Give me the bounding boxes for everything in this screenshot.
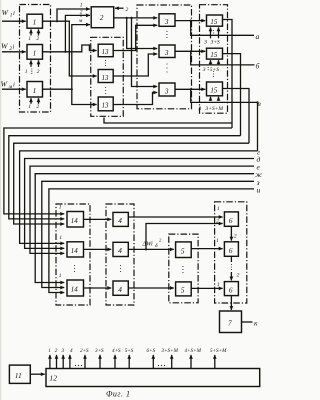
svg-text:и: и — [257, 185, 261, 194]
wire block1 row3 out to block2 pin м and to 13 row3 — [43, 88, 72, 90]
svg-text:i: i — [13, 10, 15, 17]
block 13 row1 — [98, 44, 113, 57]
bus line 3 — [14, 143, 249, 224]
svg-text:а: а — [256, 32, 260, 41]
block 14 row3 — [67, 280, 84, 296]
svg-text:12: 12 — [49, 373, 57, 382]
wire 6 row1 to 6 row2, pin 2 — [230, 226, 232, 240]
svg-text:1: 1 — [28, 36, 31, 42]
block 3 row1 — [159, 14, 175, 26]
node б line — [191, 51, 255, 65]
svg-text:1: 1 — [59, 205, 62, 211]
svg-text:5: 5 — [181, 286, 185, 295]
svg-text:1: 1 — [33, 48, 37, 57]
block 15 row1 — [207, 15, 223, 26]
svg-text:3: 3 — [164, 86, 169, 95]
svg-text:6: 6 — [229, 216, 233, 225]
svg-text:1: 1 — [217, 206, 220, 212]
svg-text:11: 11 — [15, 371, 22, 380]
svg-text:5+S: 5+S — [125, 348, 134, 354]
ellipsis between 13 rows — [105, 60, 106, 66]
block 7 — [220, 311, 242, 333]
wire 13 row3 out to 3 row3 input2 — [113, 93, 157, 105]
wire node в wrap-around — [257, 102, 259, 150]
svg-text:15: 15 — [210, 52, 217, 59]
svg-text:6+S: 6+S — [147, 348, 156, 354]
block 5 row3 — [176, 282, 192, 296]
wire 13 row2 out to 3 row2 input2 — [113, 54, 157, 76]
wire branch to 3 row2 input1 — [127, 18, 158, 49]
group frame G5 — [169, 234, 198, 303]
wire 14 row3 to 4 row3 — [84, 287, 112, 289]
svg-text:δ: δ — [155, 243, 158, 249]
wire 14 row1 to 4 row1 — [84, 218, 112, 220]
wire feedback line y123 — [104, 118, 232, 124]
pins 3, 3+S below 15 row1 — [210, 27, 212, 38]
node а line — [191, 21, 254, 36]
svg-text:2: 2 — [100, 13, 104, 22]
svg-text:6: 6 — [229, 285, 233, 294]
wire 3 row3 out to 15 row3, node в branch — [175, 88, 205, 90]
block 4 row3 — [113, 281, 128, 295]
svg-text:13: 13 — [102, 103, 109, 110]
wire block2 out to block 3 row1 — [114, 17, 158, 19]
svg-text:6: 6 — [229, 246, 233, 255]
svg-text:к: к — [254, 319, 258, 328]
group frame G6 — [215, 202, 247, 303]
svg-text:14: 14 — [71, 218, 78, 225]
svg-text:4: 4 — [118, 285, 122, 294]
svg-text:5: 5 — [181, 247, 185, 256]
group frame G14 — [56, 204, 90, 305]
wire 4 row2 out to 5 row2, branch ΔWiδ2 up to 6 row1 pin2 — [128, 248, 174, 250]
wire 4 row1 out to 6 row1 pin1 — [128, 216, 222, 218]
svg-text:4+S+M: 4+S+M — [185, 347, 202, 354]
pins 1,2 below block 1 row1 — [30, 29, 32, 35]
svg-text:3: 3 — [202, 67, 206, 73]
block 13 row3 — [98, 97, 113, 111]
wire 11 to 12 — [30, 373, 44, 375]
block 12 — [46, 369, 260, 387]
wire 6 row2 to 6 row3 dotted continuation, pin 2 — [230, 256, 232, 262]
block 6 row1 — [224, 212, 238, 226]
block 15 row2 — [207, 48, 223, 59]
svg-text:2: 2 — [234, 233, 237, 239]
svg-text:4: 4 — [70, 347, 73, 354]
ellipsis between 15 rows — [213, 30, 214, 36]
wire Wмi input — [2, 88, 26, 90]
wire branch to 3 row3 input1 — [132, 18, 158, 87]
bus line 7 node ж — [35, 174, 254, 283]
svg-text:15: 15 — [210, 88, 217, 95]
svg-text:м: м — [78, 18, 83, 24]
block 4 row2 — [113, 242, 128, 256]
pins 3, 3+S+M below 15 row3 — [210, 97, 212, 101]
pins 1,2 below block 1 row2 — [30, 60, 32, 66]
bus line 4 node г — [20, 151, 258, 244]
block 1 (row 2) — [27, 45, 43, 60]
svg-text:4: 4 — [118, 246, 122, 255]
block 11 — [9, 365, 30, 383]
svg-text:5+S+M: 5+S+M — [210, 348, 227, 354]
block 6 row3 — [224, 282, 238, 296]
svg-text:4: 4 — [118, 216, 122, 225]
block 2 — [91, 7, 114, 28]
wire 15 row2 out wrap-around — [223, 54, 241, 136]
svg-text:15: 15 — [210, 19, 217, 26]
svg-text:1: 1 — [216, 238, 219, 244]
wire W2i input — [2, 51, 26, 53]
ellipsis between 14 rows — [74, 265, 75, 272]
svg-text:3+S+M: 3+S+M — [162, 348, 179, 354]
wire 5 row2 out to 6 row2 — [191, 248, 222, 250]
wire 3 row2 out to 15 row2, node б branch — [175, 50, 205, 52]
svg-text:3: 3 — [164, 17, 169, 26]
ellipsis between 4 rows — [120, 265, 121, 272]
svg-text:1: 1 — [217, 282, 220, 288]
svg-text:2: 2 — [237, 272, 240, 278]
block 6 row2 — [224, 242, 238, 256]
group frame G13 — [91, 37, 124, 116]
ellipsis between 5 rows — [182, 266, 183, 273]
wire 3 row1 out to 15 row1, node а branch — [175, 20, 205, 22]
svg-text:4+S: 4+S — [112, 347, 121, 354]
svg-text:3: 3 — [164, 48, 169, 57]
svg-text:1: 1 — [59, 235, 62, 241]
node в line — [191, 89, 258, 102]
svg-text:ΔWi: ΔWi — [142, 241, 153, 248]
wire 15 row1 out wrap-around — [223, 20, 233, 129]
svg-text:3: 3 — [62, 348, 65, 354]
block 5 row2 — [176, 242, 192, 258]
svg-text:i: i — [13, 82, 15, 89]
group frame G15 — [200, 5, 228, 114]
svg-text:i: i — [13, 44, 15, 51]
bus line 2 — [9, 136, 241, 219]
svg-text:2: 2 — [216, 219, 219, 225]
svg-text:3+S+M: 3+S+M — [205, 106, 224, 112]
ellipsis pins row2 — [31, 68, 32, 74]
ellipsis groups on block 12 pins — [75, 365, 82, 366]
pin labels of block 12 — [48, 347, 227, 354]
block 3 row2 — [159, 45, 175, 58]
block 1 (row 3) — [27, 82, 43, 98]
wire node к — [242, 321, 253, 323]
svg-text:2+S: 2+S — [80, 348, 89, 354]
svg-text:1: 1 — [33, 86, 37, 95]
block 14 row2 — [67, 242, 84, 257]
wire W1i input — [2, 20, 26, 22]
input 2 stub at right of block 2 — [115, 7, 124, 9]
scan edge band — [0, 0, 1, 400]
svg-text:3: 3 — [198, 106, 202, 112]
svg-text:1: 1 — [33, 18, 37, 27]
bus line 5 node д — [25, 159, 254, 249]
svg-text:14: 14 — [71, 248, 78, 255]
svg-text:2: 2 — [37, 69, 40, 75]
svg-text:5+S: 5+S — [210, 67, 219, 73]
svg-text:2: 2 — [126, 7, 129, 13]
block 15 row3 — [207, 82, 223, 96]
svg-text:2: 2 — [36, 104, 39, 110]
svg-text:13: 13 — [102, 75, 109, 82]
svg-text:1: 1 — [80, 2, 83, 8]
ellipsis between 3 rows — [166, 31, 167, 38]
wire 14 row2 to 4 row2 — [84, 248, 112, 250]
block 1 (row 1) — [27, 14, 43, 28]
svg-text:3+S: 3+S — [210, 40, 220, 46]
group frame G1 (column of blocks 1) — [20, 5, 51, 113]
pins 3, 5+S below 15 row2 — [210, 60, 212, 64]
svg-text:1: 1 — [25, 69, 28, 75]
block 13 row2 — [98, 70, 113, 83]
block 12 output pins — [50, 355, 215, 369]
svg-text:7: 7 — [228, 318, 232, 327]
wire block1 row1 out to block2 pin1 and to 13 row2 — [43, 21, 97, 76]
svg-text:1: 1 — [59, 273, 62, 279]
pins 1,2 below block 1 row3 — [30, 98, 32, 104]
svg-text:2: 2 — [36, 36, 39, 42]
group frame G3 — [137, 5, 192, 109]
block 3 row3 — [159, 83, 175, 96]
svg-text:13: 13 — [102, 49, 109, 56]
wire 5 row3 out to 6 row3 — [191, 287, 222, 289]
wire 15 row3 out wrap-around — [223, 89, 250, 144]
svg-text:2: 2 — [55, 348, 58, 354]
wire 6 row3 down to block 7 — [230, 296, 232, 310]
bus line 1 — [4, 128, 232, 214]
block 14 row1 — [67, 212, 84, 228]
svg-text:1: 1 — [28, 104, 31, 110]
svg-text:14: 14 — [71, 287, 78, 294]
bus line 8 node з — [42, 181, 254, 287]
wire 4 row3 out to 5 row3 — [128, 287, 174, 289]
group frame G4 — [106, 204, 134, 305]
svg-text:Фиг. 1: Фиг. 1 — [106, 390, 130, 399]
block 4 row1 — [113, 212, 128, 226]
wire 13 row1 out to 3 row1 input2 — [113, 25, 157, 50]
svg-text:3: 3 — [203, 40, 207, 46]
wire block1 row2 out to block2 pin2 and to 13 row1 — [43, 45, 97, 52]
svg-text:1: 1 — [48, 348, 51, 354]
bus line 9 node и — [49, 189, 254, 293]
svg-text:3+S: 3+S — [95, 348, 104, 354]
bus line 6 node е — [30, 166, 254, 253]
